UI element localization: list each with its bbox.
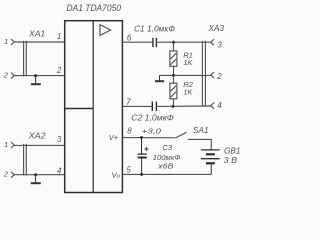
svg-text:3 В: 3 В	[224, 156, 238, 165]
svg-text:SA1: SA1	[193, 126, 209, 135]
svg-text:1: 1	[4, 140, 8, 149]
wire DA1 pin5 (Vo) bottom rail to battery	[122, 173, 211, 175]
svg-text:2: 2	[3, 170, 9, 179]
wire XA1-1 to DA1 pin1	[14, 41, 64, 43]
svg-text:5: 5	[127, 165, 132, 174]
ground at XA1	[31, 76, 41, 85]
svg-text:7: 7	[126, 97, 131, 106]
svg-text:XA2: XA2	[28, 132, 47, 141]
svg-text:XA1: XA1	[28, 29, 45, 38]
svg-text:C2 1,0мкФ: C2 1,0мкФ	[131, 113, 174, 122]
resistor R1	[170, 42, 177, 75]
wire C2 to XA3-4	[157, 105, 210, 107]
svg-text:2: 2	[216, 72, 222, 81]
wire DA1 pin8 (V+) to switch	[122, 137, 175, 139]
amplifier triangle symbol inside DA1	[100, 25, 111, 36]
wire C1 to XA3-3	[157, 41, 210, 43]
wire XA1-2 to DA1 pin2	[14, 75, 64, 77]
ground at R1/R2 divider	[155, 75, 164, 81]
svg-text:C3: C3	[162, 143, 172, 152]
junction C1/R1 node	[172, 41, 175, 44]
svg-text:1: 1	[4, 37, 8, 46]
wire DA1 pin6 to C1	[122, 41, 152, 43]
battery GB1	[201, 150, 220, 163]
wire mid node to XA3-2	[160, 74, 211, 76]
svg-text:1: 1	[57, 32, 61, 41]
junction R1/R2 node	[172, 74, 175, 77]
svg-text:DA1 TDA7050: DA1 TDA7050	[67, 3, 122, 13]
wire XA2-1 to DA1 pin3	[14, 144, 64, 146]
svg-text:C1 1,0мкФ: C1 1,0мкФ	[134, 25, 175, 34]
svg-text:XA3: XA3	[207, 24, 224, 33]
capacitor C1	[153, 38, 157, 47]
svg-text:3: 3	[217, 40, 222, 49]
svg-text:3: 3	[57, 135, 62, 144]
junction C3 top node	[140, 136, 143, 139]
connector XA2	[11, 142, 26, 178]
resistor R2	[170, 75, 177, 106]
junction C3 bottom node	[140, 173, 143, 176]
svg-text:100мкФ: 100мкФ	[153, 153, 181, 162]
wire battery to bottom rail	[210, 164, 212, 174]
switch SA1 lever	[176, 132, 187, 138]
svg-text:V+: V+	[109, 133, 119, 142]
svg-text:1K: 1K	[183, 87, 193, 96]
junction on XA2-2 wire	[34, 173, 37, 176]
wire DA1 pin7 to C2	[122, 105, 151, 107]
capacitor C2	[152, 102, 156, 112]
svg-text:6: 6	[127, 33, 132, 42]
C3 plus sign	[144, 147, 148, 151]
junction R2/C2 node	[172, 105, 175, 108]
svg-text:2: 2	[3, 71, 9, 80]
connector XA1	[11, 39, 26, 79]
capacitor C3 (electrolytic)	[138, 138, 147, 175]
svg-text:1K: 1K	[183, 58, 193, 67]
ground at XA2	[31, 175, 41, 184]
svg-text:4: 4	[57, 166, 62, 175]
svg-text:х6В: х6В	[157, 162, 173, 171]
wire switch to battery	[188, 139, 212, 149]
connector XA3	[202, 39, 214, 109]
op-amp IC DA1 TDA7050 body	[65, 21, 123, 193]
svg-text:+3,0: +3,0	[142, 127, 162, 136]
svg-text:2: 2	[56, 66, 62, 75]
junction on XA1-2 wire	[34, 74, 37, 77]
svg-text:4: 4	[217, 101, 222, 110]
svg-text:GB1: GB1	[224, 146, 240, 155]
wire XA2-2 to DA1 pin4	[14, 174, 64, 176]
svg-text:8: 8	[127, 127, 132, 136]
